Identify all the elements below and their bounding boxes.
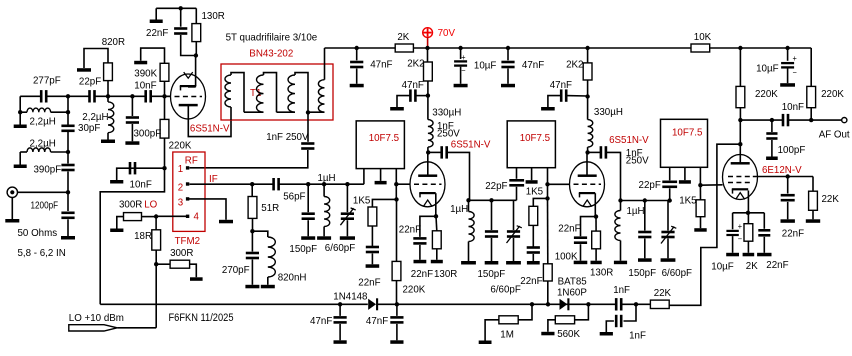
svg-text:1N60P: 1N60P	[557, 288, 587, 299]
node rail V4 plate	[738, 46, 742, 50]
filter2 pin gnd	[531, 168, 533, 181]
node cathode top	[179, 6, 183, 10]
ground 22nF cathode V3	[574, 261, 588, 265]
svg-text:1N4148: 1N4148	[333, 292, 367, 303]
node AGC1	[162, 166, 166, 170]
ground 130R cathode V3	[591, 261, 602, 265]
node A6	[67, 132, 69, 152]
node plate V2	[426, 150, 430, 154]
ground 300pF	[131, 124, 133, 141]
wire plate stem V2	[427, 152, 429, 175]
T1 winding 1	[225, 75, 231, 107]
node IF3	[306, 182, 310, 186]
node A7	[66, 190, 70, 194]
transformer T1 red box	[221, 64, 333, 120]
ground 820R	[77, 68, 91, 72]
svg-text:2K: 2K	[397, 32, 409, 43]
svg-text:3: 3	[178, 198, 184, 209]
svg-text:220K: 220K	[821, 89, 844, 100]
svg-text:2,2µH: 2,2µH	[82, 112, 108, 123]
svg-text:130R: 130R	[590, 268, 614, 279]
svg-text:18R: 18R	[134, 231, 152, 242]
svg-text:5,8 - 6,2 IN: 5,8 - 6,2 IN	[18, 248, 66, 259]
ground 300R lower	[190, 277, 203, 281]
svg-text:22nF: 22nF	[399, 224, 421, 235]
svg-text:1µH: 1µH	[627, 206, 645, 217]
node M3b	[643, 198, 647, 202]
wire rail right end	[810, 48, 812, 86]
svg-text:30pF: 30pF	[78, 123, 100, 134]
node A1	[66, 94, 70, 98]
svg-text:22nF: 22nF	[411, 269, 433, 280]
ground 820nH	[261, 285, 275, 289]
ground trimmer stage1	[340, 236, 355, 240]
svg-text:1200pF: 1200pF	[31, 201, 59, 212]
svg-text:1: 1	[178, 164, 184, 175]
svg-text:1µH: 1µH	[450, 204, 468, 215]
svg-text:22nF: 22nF	[358, 277, 380, 288]
capacitor 10uF rail	[460, 48, 462, 59]
svg-text:LO: LO	[144, 199, 157, 210]
svg-text:22nF: 22nF	[146, 28, 168, 39]
filter2 pin out	[547, 168, 549, 185]
inductor 2,2uH upper-left	[18, 110, 22, 114]
svg-text:220K: 220K	[755, 89, 778, 100]
svg-text:22K: 22K	[822, 194, 839, 205]
svg-text:4: 4	[194, 212, 200, 223]
capacitor 277pF	[40, 90, 43, 102]
node rail 47nF-1	[355, 46, 359, 50]
wire stage2 net	[469, 199, 517, 201]
svg-text:250V: 250V	[626, 156, 649, 167]
svg-text:560K: 560K	[557, 329, 580, 340]
node IF5	[345, 182, 349, 186]
svg-text:50 Ohms: 50 Ohms	[18, 228, 58, 239]
ground 47nF AGC A	[334, 340, 347, 344]
ground 130R cathode V2	[431, 260, 443, 264]
node A5	[66, 110, 70, 114]
capacitor 10nF AGC bypass	[129, 162, 132, 174]
ground 2K cathode	[743, 253, 755, 256]
mixer TFM2 red box	[173, 152, 205, 231]
wire pin3 to ground	[189, 199, 226, 220]
capacitor 47nF rail decoupling 2	[507, 48, 509, 60]
node A4 grid of V1	[162, 94, 166, 98]
ground 390K	[134, 61, 147, 65]
ground 10nF AGC	[110, 180, 123, 184]
node cathode V1	[194, 53, 198, 57]
svg-text:2K2: 2K2	[407, 58, 425, 69]
crystal filter FL3 10F7.5	[661, 119, 708, 167]
capacitor 56pF	[272, 178, 275, 190]
filter1 pin gnd	[380, 169, 382, 181]
wire plate V1 to T1	[188, 106, 231, 137]
node IF2	[250, 229, 254, 233]
wire plate stem V4	[739, 120, 741, 163]
svg-text:6/60pF: 6/60pF	[490, 285, 520, 296]
svg-text:70V: 70V	[438, 28, 455, 39]
wire cathode V3	[594, 193, 596, 216]
ground 47nF rail 1	[350, 84, 364, 88]
supply +70V symbol	[423, 28, 433, 38]
capacitor 47nF rail decoupling 1	[356, 48, 358, 60]
svg-text:−: −	[738, 235, 743, 244]
node AF2	[770, 118, 774, 122]
node plate tap	[738, 142, 742, 146]
ground 10uF detector	[780, 83, 795, 87]
ground 1M	[479, 341, 492, 345]
ground 22K screen	[806, 219, 820, 223]
wire T1 to RF port	[190, 150, 308, 168]
svg-text:22pF: 22pF	[485, 181, 507, 192]
T1 winding 4	[308, 111, 325, 113]
ground connector	[11, 198, 13, 220]
ground 22nF cathode V2	[414, 260, 427, 264]
svg-text:22pF: 22pF	[79, 77, 101, 88]
svg-text:820nH: 820nH	[278, 272, 307, 283]
svg-text:+: +	[793, 54, 798, 63]
wire connector to node	[20, 191, 68, 193]
svg-text:47nF: 47nF	[366, 316, 388, 327]
svg-text:6/60pF: 6/60pF	[662, 268, 692, 279]
node IF1	[250, 182, 254, 186]
ground 1200pF	[67, 219, 69, 236]
svg-text:300pF: 300pF	[134, 129, 162, 140]
ground top-left	[150, 20, 163, 24]
node AF1	[738, 118, 742, 122]
coax input connector J1 50 Ohms	[7, 187, 17, 197]
svg-text:10F7.5: 10F7.5	[672, 127, 703, 138]
ground for 2,2uH upper	[19, 112, 21, 124]
svg-text:22nF: 22nF	[520, 276, 542, 287]
svg-text:5T quadrifilaire 3/10e: 5T quadrifilaire 3/10e	[226, 32, 318, 43]
ground 22nF screen	[781, 219, 795, 223]
svg-text:+: +	[738, 222, 743, 231]
wire LO feed	[155, 264, 157, 328]
node term2	[545, 196, 549, 200]
node A2	[106, 94, 110, 98]
T1 winding 2	[244, 111, 264, 113]
svg-text:22nF: 22nF	[558, 224, 580, 235]
filter1 pin in	[363, 169, 365, 185]
svg-text:270pF: 270pF	[222, 265, 250, 276]
node LO2	[154, 262, 158, 266]
svg-text:820R: 820R	[102, 37, 126, 48]
svg-text:1K5: 1K5	[353, 195, 371, 206]
inductor 2,2uH vertical	[107, 96, 109, 102]
filter3 pin gnd	[684, 167, 686, 180]
svg-text:+: +	[461, 53, 466, 62]
svg-text:2: 2	[178, 183, 184, 194]
wire AF line	[740, 119, 783, 121]
svg-text:6/60pF: 6/60pF	[325, 243, 355, 254]
ground 150pF stage3	[638, 258, 652, 262]
svg-text:220K: 220K	[169, 140, 192, 151]
capacitor 10uF detector	[787, 48, 789, 61]
svg-text:330µH: 330µH	[432, 108, 461, 119]
wire IF line	[190, 183, 252, 185]
svg-text:150pF: 150pF	[628, 268, 656, 279]
ground 10uF cathode	[726, 253, 739, 256]
svg-text:51R: 51R	[261, 203, 279, 214]
node AGC 47nF-A	[338, 302, 342, 306]
capacitor 22nF cathode V1	[180, 8, 182, 26]
svg-text:2K2: 2K2	[566, 59, 584, 70]
ground 270pF	[245, 285, 259, 289]
node T1 output	[306, 110, 310, 114]
svg-text:F6FKN 11/2025: F6FKN 11/2025	[169, 312, 234, 324]
node rail 47nF-2	[506, 46, 510, 50]
svg-text:10µF: 10µF	[474, 60, 497, 71]
svg-text:130R: 130R	[434, 269, 458, 280]
node IF4	[322, 182, 326, 186]
capacitor 30pF	[67, 96, 69, 124]
svg-text:RF: RF	[185, 156, 198, 167]
node filter2 out	[545, 182, 549, 186]
ground trimmer stage3	[661, 258, 676, 262]
svg-text:IF: IF	[209, 174, 218, 185]
svg-text:10µF: 10µF	[711, 261, 734, 272]
svg-text:6S51N-V: 6S51N-V	[609, 135, 649, 146]
ground 1uH stage3	[614, 261, 627, 265]
svg-text:1nF: 1nF	[629, 331, 646, 342]
capacitor 22pF	[88, 90, 91, 102]
ground 1uH stage1	[317, 236, 331, 240]
ground 300R upper	[110, 229, 123, 233]
wire plate stem V3	[586, 152, 588, 175]
ground 150pF stage2	[485, 261, 499, 265]
node filter3 out	[698, 183, 702, 187]
svg-text:250V: 250V	[437, 128, 460, 139]
svg-text:1nF 250V: 1nF 250V	[266, 132, 308, 143]
tube V2 6S51N-V	[410, 162, 445, 207]
svg-text:47nF: 47nF	[310, 316, 332, 327]
wire cathode V4	[747, 191, 749, 213]
svg-text:10F7.5: 10F7.5	[520, 133, 551, 144]
ground 2,2uH vertical	[101, 140, 115, 144]
svg-text:BN43-202: BN43-202	[249, 49, 293, 60]
svg-text:47nF: 47nF	[370, 60, 392, 71]
svg-text:390pF: 390pF	[34, 165, 62, 176]
capacitor 10nF series	[144, 90, 147, 102]
svg-text:1K5: 1K5	[679, 196, 697, 207]
ground 47nF AGC B	[390, 340, 403, 344]
tube V3 6S51N-V	[570, 162, 605, 207]
filter3 pin out	[699, 167, 701, 185]
svg-text:56pF: 56pF	[283, 191, 305, 202]
capacitor 300pF	[131, 96, 133, 116]
capacitor 1nF 250V T1 output	[307, 112, 309, 141]
ground 22nF termination 2	[527, 261, 540, 265]
node screen	[786, 174, 790, 178]
svg-text:AF Out: AF Out	[819, 130, 850, 141]
svg-text:150pF: 150pF	[478, 269, 506, 280]
svg-text:150pF: 150pF	[289, 244, 317, 255]
ground 47nF stage1	[390, 107, 404, 111]
node AGC 1M tap	[530, 302, 534, 306]
tube V4 6E12N-V	[723, 155, 758, 200]
inductor 2,2uH lower-left	[20, 151, 27, 153]
wire grid V1	[165, 95, 171, 97]
svg-text:LO +10 dBm: LO +10 dBm	[69, 313, 124, 324]
T1 winding 3	[277, 111, 296, 113]
node decouple stage1	[426, 93, 430, 97]
node A3	[130, 94, 134, 98]
svg-text:10µF: 10µF	[756, 64, 779, 75]
ground 1K5 termination 3	[694, 228, 706, 232]
node term1	[394, 197, 398, 201]
svg-text:10nF: 10nF	[130, 180, 152, 191]
svg-text:−: −	[461, 66, 466, 75]
svg-text:10nF: 10nF	[134, 80, 156, 91]
svg-text:TFM2: TFM2	[175, 236, 201, 247]
svg-text:1nF: 1nF	[613, 285, 630, 296]
svg-text:22nF: 22nF	[782, 228, 804, 239]
wire screen V4 right	[753, 176, 813, 178]
ground 560K	[541, 332, 554, 336]
node AGC 100K	[546, 302, 550, 306]
node AGC out	[634, 302, 638, 306]
AF Out terminal	[842, 118, 847, 123]
node decouple stage2	[585, 94, 589, 98]
svg-text:390K: 390K	[134, 69, 157, 80]
svg-text:10F7.5: 10F7.5	[369, 133, 400, 144]
node AF3	[809, 118, 813, 122]
node M2b	[489, 198, 493, 202]
wire pin4 LO	[156, 215, 186, 217]
node M3c	[668, 198, 672, 202]
ground 150pF stage1	[301, 236, 315, 240]
svg-text:220K: 220K	[403, 284, 426, 295]
svg-text:BAT85: BAT85	[558, 276, 587, 287]
svg-text:−: −	[793, 68, 798, 77]
node rail 10uF-2	[785, 46, 789, 50]
node cathode V3	[594, 214, 598, 218]
wire cathode bus	[733, 212, 765, 214]
tube V1 6S51N-V (inverted)	[195, 56, 197, 87]
node AGC 560K tap	[586, 302, 590, 306]
svg-text:1µH: 1µH	[318, 173, 336, 184]
node rail 10uF	[458, 46, 462, 50]
svg-text:10nF: 10nF	[782, 102, 804, 113]
node rail 2K2-2	[585, 46, 589, 50]
wire main input line	[20, 95, 41, 97]
node rail 70V	[425, 46, 429, 50]
node LO1	[154, 214, 158, 218]
ground 47nF stage2	[541, 107, 555, 111]
wire AGC routing to bottom	[100, 168, 164, 304]
crystal filter FL1 10F7.5	[356, 121, 404, 169]
node filter1 out	[394, 182, 398, 186]
node AGC B	[395, 302, 399, 306]
wire cathode V2	[435, 193, 437, 216]
svg-text:2K: 2K	[746, 261, 758, 272]
wire AGC line	[100, 303, 368, 305]
svg-text:47nF: 47nF	[522, 60, 544, 71]
svg-text:6S51N-V: 6S51N-V	[451, 140, 491, 151]
node cathode V2	[434, 214, 438, 218]
svg-text:6E12N-V: 6E12N-V	[762, 165, 802, 176]
svg-text:330µH: 330µH	[594, 107, 623, 118]
ground 100pF	[766, 157, 778, 161]
ground 1uH stage2	[461, 261, 476, 265]
svg-text:2,2µH: 2,2µH	[30, 116, 56, 127]
svg-text:22nF: 22nF	[766, 260, 788, 271]
svg-text:1M: 1M	[500, 329, 514, 340]
svg-text:100pF: 100pF	[778, 145, 806, 156]
node plate V3	[585, 150, 589, 154]
ground 22nF termination 1	[366, 264, 380, 268]
node cathode V4	[746, 211, 750, 215]
wire +70V rail	[325, 47, 396, 49]
svg-text:22K: 22K	[654, 288, 671, 299]
svg-text:47nF: 47nF	[402, 80, 424, 91]
ground 1nF shunt	[600, 332, 613, 336]
svg-text:6S51N-V: 6S51N-V	[190, 124, 230, 135]
crystal filter FL2 10F7.5	[507, 121, 555, 168]
capacitor 390pF	[67, 152, 69, 164]
svg-text:1K5: 1K5	[526, 187, 544, 198]
ground 22nF cathode V4	[757, 253, 771, 256]
ground 47nF rail 2	[501, 84, 515, 88]
svg-text:300R: 300R	[170, 248, 194, 259]
ground for 2,2uH lower	[19, 152, 21, 165]
capacitor 1200pF	[67, 192, 69, 211]
svg-text:130R: 130R	[202, 11, 226, 22]
ground trimmer stage2	[506, 261, 521, 265]
svg-text:2,2µH: 2,2µH	[30, 139, 56, 150]
node M3a	[618, 198, 622, 202]
svg-text:277pF: 277pF	[33, 76, 61, 87]
svg-text:300R: 300R	[119, 199, 143, 210]
filter1 pin out	[395, 169, 397, 185]
wire top ground rail	[156, 7, 196, 9]
wire stage3 net	[621, 200, 670, 202]
wire plate tap to AGC 22K	[669, 144, 740, 305]
node M2a	[466, 198, 470, 202]
svg-text:22pF: 22pF	[639, 180, 661, 191]
svg-text:10K: 10K	[694, 32, 711, 43]
ground 10uF rail	[454, 84, 468, 88]
